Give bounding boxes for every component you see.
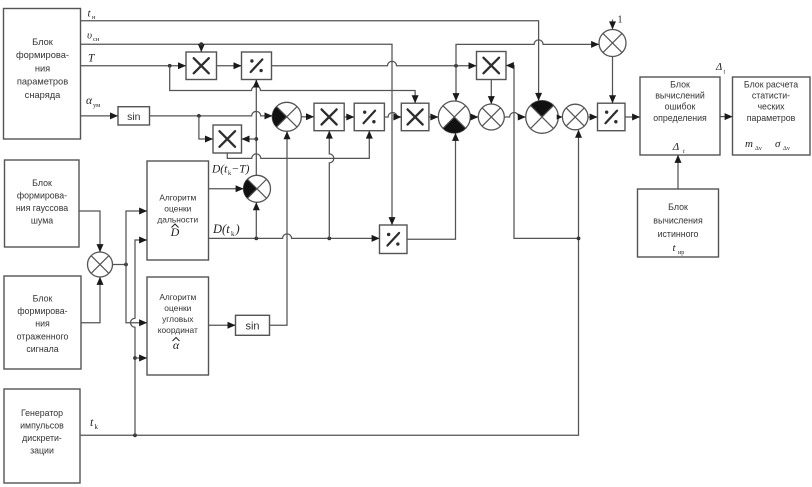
- multiplier M1: [186, 52, 217, 80]
- svg-text:шума: шума: [31, 216, 53, 226]
- svg-text:отраженного: отраженного: [17, 331, 69, 341]
- wire const 1 stub into TR: [612, 20, 614, 29]
- wire DV3 out to SA bottom: [407, 133, 456, 239]
- svg-text:sin: sin: [245, 320, 259, 332]
- summator N1 (noise adder): [88, 252, 113, 277]
- wire alpha from B1 to SIN1: [81, 115, 118, 117]
- block B4: Генератор импульсов дискретизации: [4, 389, 80, 483]
- svg-text:1: 1: [618, 15, 623, 26]
- svg-text:D(t: D(t: [211, 164, 228, 176]
- wire t from B1 to SC top: [81, 21, 539, 101]
- multiplier circle CB: [478, 104, 504, 130]
- block U1: Алгоритм оценки дальности D^: [147, 161, 209, 260]
- svg-text:υ: υ: [87, 30, 92, 42]
- wire tk riser to U1 left lower: [131, 240, 147, 435]
- svg-text:ния: ния: [35, 319, 50, 329]
- wire D(tk) branch up to M3 bottom: [329, 131, 334, 238]
- svg-text:Δ: Δ: [672, 141, 679, 153]
- wire DV2 to M4 with hop: [384, 113, 401, 118]
- wire M2 out to DV2 bottom: [227, 131, 369, 158]
- label alpha_um: [86, 95, 100, 109]
- wire M3 to DV2: [344, 116, 354, 118]
- wire SA to CB: [470, 116, 478, 118]
- wire DV1 branch down to SA top: [455, 66, 457, 101]
- svg-text:Δ: Δ: [715, 62, 722, 73]
- wire CD to DV4: [588, 116, 597, 118]
- wire tk from B4 to CD bottom: [81, 130, 581, 437]
- svg-text:формирова-: формирова-: [17, 306, 67, 316]
- svg-text:формирова-: формирова-: [17, 191, 67, 201]
- summator S1 (filled left sector): [272, 102, 301, 131]
- wire M5 out down to CB top: [490, 80, 492, 104]
- svg-text:Генератор: Генератор: [21, 408, 63, 418]
- wire B2 out to N1 top: [79, 211, 100, 252]
- block B7: Блок вычисления истинного t: [638, 189, 719, 257]
- svg-text:сигнала: сигнала: [26, 344, 58, 354]
- svg-text:формирова-: формирова-: [16, 50, 69, 60]
- svg-text:Блок: Блок: [33, 294, 53, 304]
- svg-text:ум: ум: [93, 102, 100, 109]
- wire N1 out to distribution node: [113, 263, 128, 267]
- wire B5 to B6: [720, 116, 732, 118]
- svg-text:параметров: параметров: [747, 113, 796, 123]
- svg-text:Блок: Блок: [670, 80, 690, 90]
- label T: [88, 53, 96, 65]
- wire v from B1 down to DV3 top: [81, 44, 392, 224]
- svg-text:сн: сн: [93, 36, 100, 43]
- wire S2 out up to DV1 bottom: [254, 80, 258, 175]
- svg-text:σ: σ: [775, 138, 781, 150]
- svg-text:): ): [235, 222, 240, 236]
- svg-text:ния гауссова: ния гауссова: [16, 203, 68, 213]
- svg-text:ошибок: ошибок: [665, 102, 696, 112]
- svg-text:Алгоритм: Алгоритм: [159, 193, 196, 203]
- block B6: Блок расчета статистических параметров: [733, 77, 811, 155]
- wire DV1 out to M5 left: [272, 61, 477, 67]
- summator SA (filled bottom sector): [438, 101, 470, 133]
- svg-text:Блок: Блок: [32, 178, 52, 188]
- svg-text:импульсов: импульсов: [20, 421, 64, 431]
- wire B3 out to N1 bottom: [81, 277, 100, 322]
- sin block SIN2: [236, 315, 270, 335]
- multiplier circle TR (with const 1): [599, 30, 626, 57]
- wire D(tk) from U1 to DV3 left: [209, 234, 380, 240]
- multiplier M3: [314, 103, 344, 131]
- block B1: Блок формирования параметров снаряда: [4, 9, 81, 140]
- svg-text:дискрети-: дискрети-: [22, 433, 62, 443]
- wire M4 to SA: [429, 116, 438, 118]
- label t_n: [88, 8, 97, 22]
- divider DV1: [242, 52, 272, 80]
- svg-text:ния: ния: [35, 63, 50, 73]
- wire U2 out to SIN2: [209, 324, 236, 326]
- wire CB to SC with hop: [504, 113, 525, 117]
- svg-text:Блок: Блок: [668, 202, 688, 212]
- wire DV1 branch up to TR left: [456, 40, 599, 66]
- wire TR out down to DV4 top: [612, 57, 614, 103]
- wire M1 to DV1: [217, 65, 242, 67]
- wire T branch to M4 top: [170, 66, 415, 103]
- wire S2 out branch to M2 right: [242, 138, 256, 140]
- divider DV2: [354, 103, 384, 131]
- svg-text:ир: ир: [678, 250, 684, 256]
- svg-text:Δv: Δv: [755, 146, 762, 152]
- label t_k: [90, 415, 99, 431]
- divider DV3: [380, 225, 408, 254]
- svg-text:вычислений: вычислений: [655, 91, 705, 101]
- label v_sn: [87, 30, 100, 44]
- wire D(tk) branch up to S2 bottom: [255, 203, 257, 239]
- svg-text:α: α: [86, 95, 93, 107]
- summator S2 (filled left sector): [244, 175, 271, 202]
- label D(tk-T): [211, 164, 250, 178]
- svg-text:определения: определения: [653, 113, 707, 123]
- svg-text:Алгоритм: Алгоритм: [159, 292, 196, 302]
- wire distribution down to U2 left: [126, 265, 147, 323]
- summator SC (filled top sector): [526, 101, 559, 134]
- label const 1: [618, 15, 623, 26]
- wire v branch arrow into M1 top: [199, 42, 203, 51]
- svg-text:k: k: [95, 423, 99, 431]
- multiplier M2: [213, 125, 242, 153]
- wire SIN1 branch to M2 left: [199, 116, 213, 139]
- svg-text:параметров: параметров: [17, 77, 68, 87]
- svg-text:статисти-: статисти-: [752, 91, 790, 101]
- svg-text:sin: sin: [127, 111, 141, 123]
- multiplier M5: [477, 52, 507, 80]
- svg-text:дальности: дальности: [157, 215, 198, 225]
- wire T from B1 to M1 left: [81, 64, 186, 68]
- svg-text:вычисления: вычисления: [653, 216, 703, 226]
- sin block SIN1: [118, 107, 150, 125]
- wire tk riser branch to U2 left lower: [135, 357, 147, 359]
- block B5: Блок вычислений ошибок определения: [640, 77, 720, 155]
- block U2: Алгоритм оценки угловых координат alpha^: [147, 277, 209, 375]
- svg-text:н: н: [92, 14, 96, 21]
- divider DV4: [598, 103, 626, 131]
- label D(tk): [212, 222, 240, 238]
- multiplier M4: [401, 103, 429, 131]
- wire S1 out to M3: [301, 116, 313, 118]
- wire SC to CD (short arrow): [557, 114, 563, 119]
- wire SIN1 out to S1 left: [150, 111, 273, 117]
- svg-text:угловых: угловых: [162, 314, 194, 324]
- svg-text:оценки: оценки: [164, 204, 191, 214]
- svg-text:−T): −T): [232, 164, 250, 176]
- svg-text:m: m: [745, 138, 753, 150]
- svg-text:оценки: оценки: [164, 303, 191, 313]
- svg-text:снаряда: снаряда: [25, 90, 61, 100]
- wire tk branch to M5 right input: [506, 66, 578, 239]
- svg-text:Блок расчета: Блок расчета: [744, 80, 798, 90]
- wire DV4 to B5: [625, 116, 640, 118]
- svg-text:истинного: истинного: [658, 229, 699, 239]
- svg-text:ческих: ческих: [757, 102, 785, 112]
- label Delta above B6: [715, 62, 726, 76]
- svg-text:координат: координат: [158, 325, 198, 335]
- svg-text:D(t: D(t: [212, 222, 230, 236]
- block B2: Блок формирования гауссова шума: [5, 160, 80, 247]
- svg-text:Блок: Блок: [32, 37, 54, 47]
- multiplier circle CD: [562, 104, 588, 130]
- svg-text:k: k: [231, 230, 235, 238]
- block B3: Блок формирования отраженного сигнала: [4, 276, 81, 369]
- svg-text:зации: зации: [30, 446, 54, 456]
- wire distribution up to U1 left: [126, 211, 147, 265]
- wire SIN2 out up to S1 bottom: [270, 132, 288, 326]
- wire D(tk-T) from U1 to S2 left: [209, 188, 244, 190]
- svg-text:Δv: Δv: [783, 146, 790, 152]
- wire B7 up to B5: [677, 155, 679, 189]
